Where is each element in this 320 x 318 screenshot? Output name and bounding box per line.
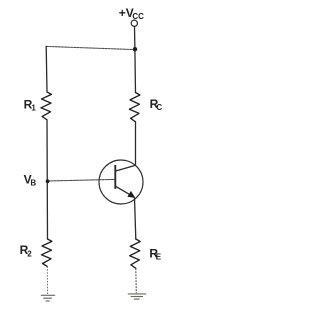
node top junction	[133, 47, 137, 51]
wire top horizontal	[46, 46, 135, 49]
svg-text:B: B	[30, 178, 36, 187]
svg-text:2: 2	[27, 249, 32, 258]
wire left rail upper	[45, 46, 48, 92]
ground right	[128, 294, 146, 299]
svg-text:1: 1	[31, 104, 36, 113]
svg-text:E: E	[156, 253, 162, 262]
resistor RC	[129, 93, 140, 122]
resistor RE	[130, 239, 141, 268]
svg-text:CC: CC	[132, 12, 144, 21]
wire RE to ground	[135, 268, 138, 293]
transistor Q1 base bar	[114, 165, 116, 189]
transistor Q1 circle	[99, 160, 143, 204]
transistor Q1 emitter	[116, 186, 134, 197]
node VB junction	[46, 179, 50, 183]
wire right rail RC-to-collector	[135, 122, 137, 165]
transistor Q1 emitter arrowhead	[128, 191, 135, 197]
wire right rail emitter-to-RE	[135, 198, 136, 239]
resistor R1	[41, 92, 52, 120]
transistor Q1 collector	[116, 165, 136, 171]
wire VCC stem	[134, 27, 136, 50]
wire base	[47, 179, 115, 181]
wire left rail middle	[46, 120, 49, 239]
svg-text:C: C	[156, 103, 162, 112]
resistor R2	[41, 239, 52, 266]
wire right rail upper	[134, 50, 137, 93]
terminal +VCC	[131, 20, 137, 26]
wire R2 to ground (faint)	[46, 266, 48, 294]
ground left	[41, 295, 55, 301]
